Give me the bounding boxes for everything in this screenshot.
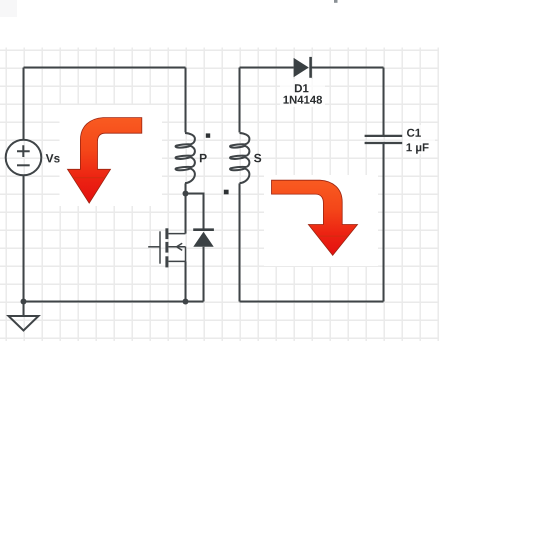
capacitor C1 plates bbox=[365, 136, 403, 143]
diode D1 cathode bar bbox=[309, 57, 312, 78]
current loop arrow left (primary loop) bbox=[68, 118, 142, 204]
voltage source plus sign bbox=[17, 145, 30, 165]
label P bbox=[200, 154, 207, 162]
wire right side lower bbox=[383, 143, 385, 302]
white patch under C1 labels bbox=[403, 125, 435, 154]
inductor primary P coil bbox=[176, 133, 195, 183]
ground bbox=[9, 316, 39, 331]
diode D1 triangle bbox=[294, 58, 309, 77]
wire primary bottom to node bbox=[185, 183, 187, 193]
label C1 bbox=[407, 129, 421, 137]
drain bar bbox=[168, 233, 185, 235]
channel bar bottom bbox=[165, 256, 168, 267]
label D1 bbox=[295, 84, 309, 92]
label 1 uF bbox=[407, 143, 429, 153]
junction node dot left bbox=[21, 299, 27, 305]
wire left side upper bbox=[23, 68, 25, 140]
junction node dot source bottom bbox=[183, 299, 189, 305]
wire top rail right loop left part bbox=[240, 67, 294, 69]
wire left side lower bbox=[23, 175, 25, 301]
wire top rail left loop bbox=[24, 67, 186, 69]
arrow head fold line left bbox=[73, 177, 106, 179]
label Vs bbox=[46, 154, 60, 162]
junction node dot drain branch bbox=[183, 191, 189, 197]
faint top-left square bbox=[0, 0, 17, 17]
inductor secondary S coil bbox=[230, 133, 249, 183]
channel bar top bbox=[165, 228, 168, 239]
arrowhead bbox=[177, 243, 183, 250]
channel bar middle bbox=[165, 242, 168, 253]
wire secondary bottom bbox=[239, 183, 241, 301]
transistor Q1 MOSFET bbox=[148, 228, 185, 301]
wire body diode to bottom rail bbox=[203, 247, 205, 302]
wire branch to body diode bbox=[186, 194, 204, 230]
voltage source minus sign bbox=[17, 164, 30, 166]
body line with arrow bbox=[168, 246, 185, 248]
wire bottom rail left loop bbox=[24, 301, 204, 303]
body to source vertical bbox=[185, 247, 187, 262]
source down wire bbox=[185, 261, 187, 301]
arrow head fold line right bbox=[318, 235, 349, 237]
source bar bbox=[168, 260, 185, 262]
current loop arrow right (secondary loop) bbox=[272, 180, 358, 255]
transformer phase dot secondary bbox=[224, 190, 229, 195]
wire secondary top bbox=[239, 68, 241, 133]
wire bottom rail right loop bbox=[240, 301, 384, 303]
wire top rail right loop right part bbox=[311, 67, 384, 69]
grid area bbox=[0, 48, 439, 342]
label S bbox=[254, 154, 261, 163]
wire primary top bbox=[185, 68, 187, 133]
wire right side upper bbox=[383, 68, 385, 136]
transformer phase dot primary bbox=[206, 133, 210, 137]
white patch under left arrow bbox=[60, 105, 163, 206]
white patch under D1 labels bbox=[280, 79, 325, 107]
tiny gray mark top edge bbox=[334, 0, 338, 3]
white patch under right arrow bbox=[264, 175, 378, 266]
gate lead bbox=[148, 246, 160, 248]
label 1N4148 bbox=[284, 96, 323, 104]
voltage source Vs circle bbox=[6, 140, 42, 176]
body diode cathode bar bbox=[193, 228, 214, 231]
body diode triangle bbox=[193, 232, 213, 247]
wire ground stub bbox=[23, 302, 25, 317]
gate line bbox=[159, 231, 161, 263]
wire node to drain bbox=[185, 194, 187, 234]
